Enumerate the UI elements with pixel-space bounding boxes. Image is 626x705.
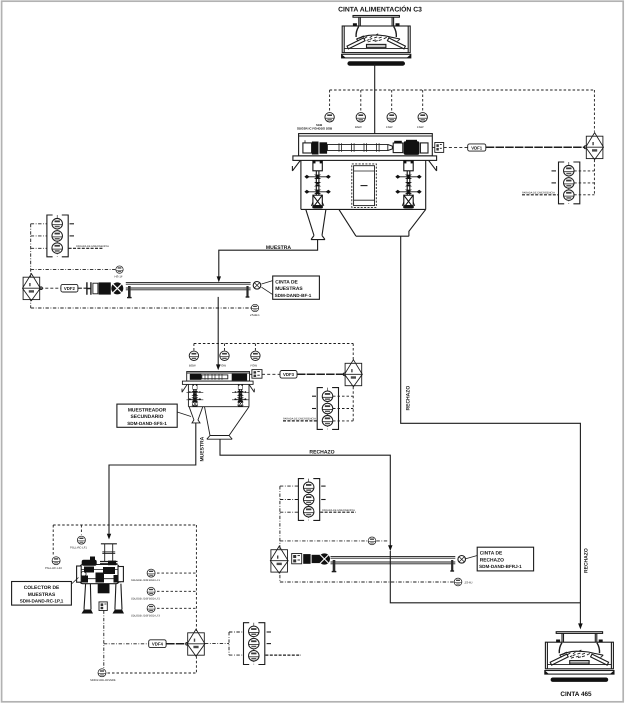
svg-text:FGW: FGW <box>220 364 227 368</box>
svg-text:MUESTRA: MUESTRA <box>266 245 292 251</box>
primary sampler right leg actuator <box>395 161 421 209</box>
collector legs <box>82 584 125 614</box>
conveyor CINTA 465 cross-section <box>545 632 614 682</box>
secondary sampler top band <box>187 372 250 382</box>
wire junction to VDF3 (dashed) <box>262 373 280 375</box>
instrument bubble on reject feed <box>368 537 376 545</box>
svg-text:HS-1F: HS-1F <box>115 275 123 279</box>
wire VDF3 to motor M3 <box>297 373 344 375</box>
motor M5 collector <box>187 629 205 656</box>
svg-text:MUESTREADOR: MUESTREADOR <box>128 407 167 413</box>
label box COLECTOR DE MUESTRAS <box>12 578 79 606</box>
svg-text:PARADA DE EMERGENCIA: PARADA DE EMERGENCIA <box>76 245 109 248</box>
instrument bubble primary 3 <box>387 113 396 122</box>
belt conveyor CINTA DE MUESTRAS <box>126 282 261 298</box>
wire C3 to primary sampler <box>374 64 376 134</box>
secondary main hopper <box>205 407 250 440</box>
secondary sampler body <box>188 384 249 406</box>
svg-text:SDFGH-DE-JDSNFB: SDFGH-DE-JDSNFB <box>90 679 116 682</box>
svg-text:VDF2: VDF2 <box>64 286 76 291</box>
VDF2 box <box>61 284 78 292</box>
bracket group collector <box>244 623 265 665</box>
wire MUESTRA primary sample line <box>219 240 318 278</box>
svg-text:PARADA DE EMERGENCIA: PARADA DE EMERGENCIA <box>322 509 355 512</box>
wire RECHAZO primary reject line <box>401 236 581 625</box>
node collector instrument boundary (dashed) <box>53 525 196 673</box>
svg-text:CINTA DE: CINTA DE <box>275 279 298 285</box>
drive motor block <box>393 143 403 153</box>
primary sampler main hopper <box>339 209 426 236</box>
svg-text:ZS-RJ: ZS-RJ <box>465 581 474 585</box>
secondary sampler flange <box>182 381 254 392</box>
svg-text:SDM-DAND-RC-1P,1: SDM-DAND-RC-1P,1 <box>20 599 64 604</box>
wire junction box to VDF1 (dashed) <box>444 146 468 148</box>
svg-text:FGW: FGW <box>386 125 393 129</box>
svg-text:SDLGDB-JDSFBGD-LF2: SDLGDB-JDSFBGD-LF2 <box>131 597 161 600</box>
svg-text:MUESTRAS: MUESTRAS <box>275 286 303 292</box>
gusset right <box>429 160 437 171</box>
svg-text:PARADA DE EMERGENCIA: PARADA DE EMERGENCIA <box>522 192 555 195</box>
svg-text:VDF3: VDF3 <box>283 372 295 377</box>
wire RECHAZO secondary to reject belt <box>220 439 390 547</box>
instrument bubble primary 4 <box>418 113 427 122</box>
wire MUESTRA secondary to collector <box>109 423 196 535</box>
wire motor M1 to bracket group (dashed) <box>574 160 594 195</box>
VDF1 box <box>468 144 486 151</box>
motor M2 cinta muestras <box>23 274 41 301</box>
svg-text:CINTA 465: CINTA 465 <box>560 691 592 698</box>
wire muestras belt to secondary sampler <box>217 297 219 366</box>
belt drive assembly reject <box>292 553 330 564</box>
instrument bubble WT primary 1 <box>325 113 334 122</box>
instrument bubble primary 2 <box>356 113 365 122</box>
wire reject belt discharge to cinta 465 line <box>390 551 580 603</box>
svg-text:VDF1: VDF1 <box>471 145 483 150</box>
wire instrument trunk reject belt (dash-dot) <box>280 486 454 582</box>
wire instrument trunk left (dash-dot) <box>31 224 252 308</box>
svg-text:FGW: FGW <box>251 364 258 368</box>
wire VDF1 to motor M1 <box>486 146 585 148</box>
svg-text:SECUNDARIO: SECUNDARIO <box>131 414 164 420</box>
svg-text:PARADA DE EMERGENCIA: PARADA DE EMERGENCIA <box>283 418 316 421</box>
primary sampler flange <box>292 156 436 171</box>
bracket group primary HS/ZS <box>559 162 580 204</box>
instrument bubble secondary 2 <box>220 351 229 360</box>
wire motor to VDF2 <box>40 287 61 289</box>
ticks and emergency stop line primary bracket <box>522 171 558 195</box>
primary sampler left hopper <box>306 209 326 239</box>
left bearing block <box>303 143 312 153</box>
secondary leg stems <box>187 389 249 403</box>
ticks bracket muestras <box>69 224 104 249</box>
secondary right leg actuator <box>234 385 246 407</box>
node primary sampler instrument header (dashed) <box>330 90 595 132</box>
svg-text:SDGSR IC FGHDDS DSB: SDGSR IC FGHDDS DSB <box>297 127 333 131</box>
instrument bubble collector bottom <box>98 669 106 677</box>
secondary left hopper <box>189 407 203 423</box>
bracket group reject belt <box>298 479 319 521</box>
instrument tag labels primary row <box>297 123 424 131</box>
svg-text:SDM-DAND-BF-1: SDM-DAND-BF-1 <box>275 293 312 298</box>
svg-text:SDLGDB-JDSFBGD-LF3: SDLGDB-JDSFBGD-LF3 <box>131 614 161 617</box>
svg-text:RECHAZO: RECHAZO <box>583 548 589 573</box>
instrument bubble secondary 1 <box>189 351 198 360</box>
primary sampler top band <box>299 134 433 156</box>
belt drive assembly muestras <box>87 282 123 295</box>
svg-text:MUESTRA: MUESTRA <box>200 436 206 461</box>
svg-text:RECHAZO: RECHAZO <box>309 450 334 456</box>
svg-text:BGW: BGW <box>355 125 362 129</box>
screw shaft <box>327 145 387 151</box>
primary sampler left leg actuator <box>304 161 330 209</box>
svg-text:MUESTRAS: MUESTRAS <box>28 592 56 598</box>
svg-text:CINTA DE: CINTA DE <box>480 551 503 557</box>
junction box secondary <box>250 370 263 379</box>
svg-text:PSLL-RC-LF1: PSLL-RC-LF1 <box>70 547 87 550</box>
svg-text:FGW: FGW <box>417 125 424 129</box>
motor M1 primary sampler <box>586 133 604 160</box>
wire VDF2 to belt drive <box>78 287 87 289</box>
svg-text:SDM-DAND-BFRJ-1: SDM-DAND-BFRJ-1 <box>479 564 522 569</box>
wire motor M5 to bracket (dash-dot) <box>205 632 243 655</box>
wire motor M3 to bracket (dashed) <box>333 387 353 421</box>
instrument bubble secondary 3 <box>251 351 260 360</box>
instrument bubble HS belt <box>116 266 123 273</box>
instrument bubble PSH collector feed <box>77 536 85 544</box>
wire collector M to VDF4 (dash-dot) <box>104 611 149 669</box>
svg-text:SDLGDB-JDSFBGD-LF1: SDLGDB-JDSFBGD-LF1 <box>131 579 161 582</box>
label box CINTA DE MUESTRAS SDM-DAND-BF-1 <box>262 276 320 299</box>
bracket group muestras belt <box>47 215 68 257</box>
instrument bubble below reject belt end <box>454 578 462 586</box>
conveyor C3 cross-section <box>342 16 411 66</box>
label box CINTA DE RECHAZO SDM-DAND-BFRJ-1 <box>465 547 534 571</box>
svg-text:SDM-DAND-SFS-1: SDM-DAND-SFS-1 <box>127 421 167 426</box>
motor M4 reject belt <box>270 546 288 573</box>
instrument bubble below belt end <box>251 304 258 311</box>
secondary left leg actuator <box>189 385 201 407</box>
svg-text:ZS-BF1: ZS-BF1 <box>250 313 260 317</box>
VDF4 box <box>149 640 166 648</box>
label box MUESTREADOR SECUNDARIO <box>117 404 191 427</box>
svg-text:RECHAZO: RECHAZO <box>405 386 411 411</box>
instrument bubbles column collector <box>147 569 155 577</box>
svg-text:BGW: BGW <box>189 364 196 368</box>
gusset left <box>292 160 300 171</box>
svg-text:COLECTOR DE: COLECTOR DE <box>24 585 60 591</box>
collector inlet pipe <box>100 544 118 564</box>
VDF3 box <box>280 371 297 379</box>
svg-text:RECHAZO: RECHAZO <box>480 557 504 563</box>
node secondary instrument header (dashed) <box>194 344 353 361</box>
motor M3 secondary sampler <box>345 360 363 387</box>
instrument bubble collector 2 <box>52 557 60 565</box>
svg-text:VDF4: VDF4 <box>152 642 164 647</box>
belt conveyor CINTA DE RECHAZO <box>331 556 466 572</box>
junction box primary <box>432 143 443 153</box>
bracket group secondary <box>317 388 338 430</box>
primary sampler access panel <box>352 164 377 208</box>
wire VDF4 to motor M5 <box>166 643 186 645</box>
svg-text:CINTA ALIMENTACIÓN C3: CINTA ALIMENTACIÓN C3 <box>338 5 422 14</box>
primary sampler body <box>301 160 426 209</box>
collector machine body <box>77 557 124 611</box>
svg-text:PSLL-RC-LF2: PSLL-RC-LF2 <box>45 567 62 570</box>
